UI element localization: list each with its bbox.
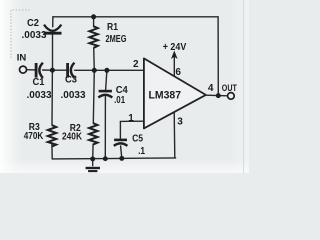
wire C3 to pin 2 of U1: [75, 69, 144, 71]
resistor R3 zigzag: [48, 125, 56, 146]
wire top feedback rail: [53, 17, 218, 96]
svg-text:3: 3: [177, 116, 183, 127]
wire R1 bottom to input wire: [93, 48, 96, 71]
wire input horizontal: [26, 69, 35, 71]
svg-text:.0033: .0033: [22, 30, 47, 41]
svg-text:2MEG: 2MEG: [106, 34, 127, 45]
capacitor C2 symbol: [44, 25, 62, 34]
capacitor C3 symbol: [68, 63, 75, 78]
svg-text:IN: IN: [17, 51, 27, 62]
ground: [86, 159, 100, 171]
resistor R2 zigzag: [89, 123, 97, 144]
svg-text:+ 24V: + 24V: [163, 42, 187, 53]
wire C2 up to top rail: [52, 17, 54, 27]
svg-text:LM387: LM387: [149, 90, 182, 102]
junction node R1/R2: [92, 68, 97, 73]
wire node A to C3: [52, 69, 67, 71]
wire C1 to node A: [43, 69, 53, 71]
capacitor C1 symbol: [36, 63, 43, 78]
svg-text:.0033: .0033: [27, 90, 52, 101]
svg-text:4: 4: [208, 83, 214, 94]
svg-text:R1: R1: [107, 22, 118, 33]
svg-text:2: 2: [133, 59, 139, 70]
wire pin 3 down: [173, 112, 176, 158]
svg-text:.01: .01: [114, 95, 125, 106]
wire output from pin 4: [206, 94, 228, 97]
svg-text:C5: C5: [132, 133, 143, 144]
wire C5 bottom to rail: [121, 146, 122, 158]
svg-text:240K: 240K: [62, 132, 83, 143]
wire R3 bottom to rail: [51, 144, 53, 159]
junction node A C1/C3/C2/R3: [50, 68, 55, 73]
wire R1 top from rail: [93, 17, 95, 27]
svg-text:470K: 470K: [24, 131, 44, 142]
wire bottom ground rail: [52, 158, 175, 159]
capacitor C5 symbol: [114, 140, 128, 146]
resistor R1 zigzag: [89, 26, 97, 48]
junction node rail C5: [119, 156, 124, 161]
svg-text:.1: .1: [138, 146, 145, 157]
OUT terminal: [228, 93, 235, 100]
junction node rail C4: [103, 156, 108, 161]
wire node A down to R3: [51, 70, 53, 125]
frame border fragment right edge: [243, 0, 245, 173]
background paper: [0, 0, 249, 173]
junction node C4: [104, 68, 109, 73]
wire pin 1 to C5: [120, 121, 143, 140]
svg-text:C3: C3: [65, 75, 77, 86]
svg-text:OUT: OUT: [222, 82, 237, 93]
wire R2 bottom to ground node: [92, 144, 94, 159]
svg-text:1: 1: [128, 113, 134, 124]
junction node output: [216, 93, 221, 98]
wire C4 bottom to rail: [104, 97, 106, 159]
svg-text:C1: C1: [33, 77, 45, 88]
junction node rail ground: [90, 156, 95, 161]
IN terminal: [20, 66, 27, 73]
frame border fragment left: [11, 10, 30, 58]
capacitor C4 symbol: [98, 91, 112, 97]
supply arrow +24V: [172, 51, 177, 58]
junction node top rail / R1: [91, 14, 96, 19]
wire node A up to C2: [52, 34, 54, 70]
svg-text:6: 6: [175, 67, 181, 78]
op-amp U1 LM387 triangle: [144, 58, 206, 128]
wire C4 top from input wire: [106, 70, 107, 90]
wire R2 top from input wire: [93, 70, 94, 123]
svg-text:.0033: .0033: [61, 90, 86, 101]
svg-text:C2: C2: [27, 18, 39, 29]
wire pin 6 supply: [173, 57, 175, 77]
